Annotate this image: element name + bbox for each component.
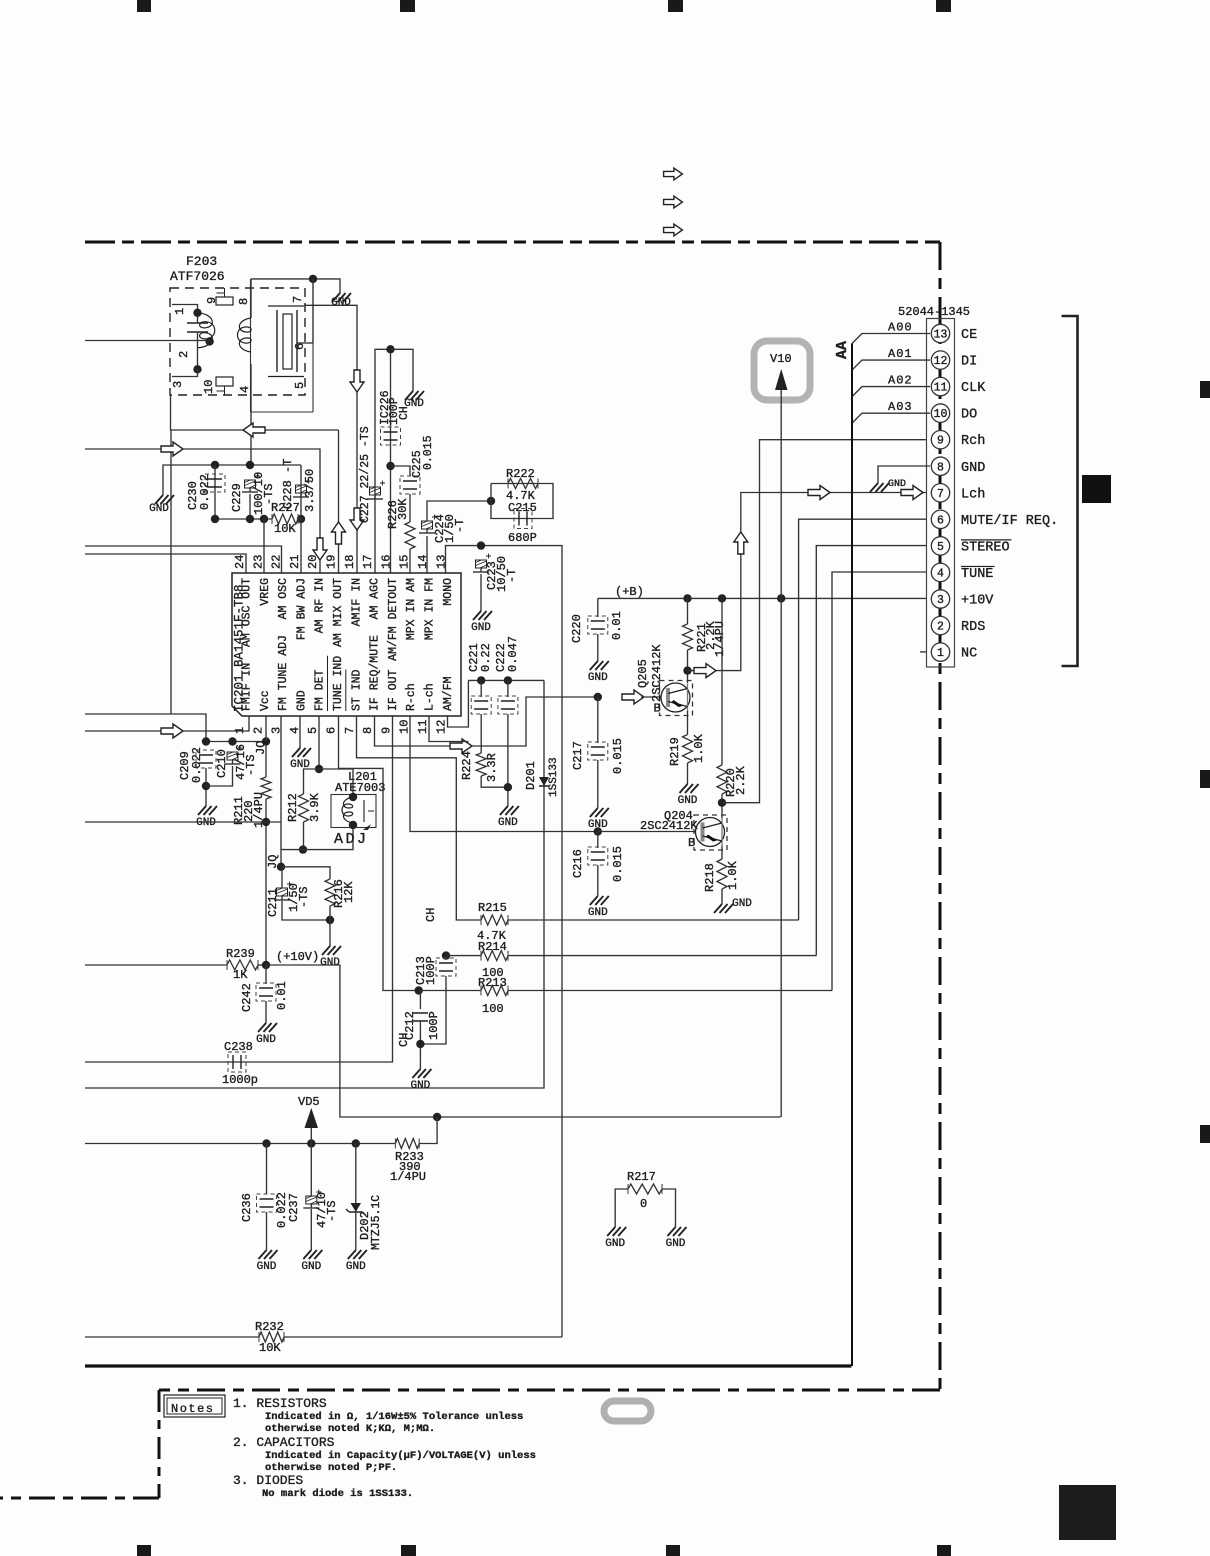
IC pin 21 number xyxy=(288,555,302,569)
IC pin 12 label AM/FM xyxy=(442,676,455,711)
label A00 xyxy=(888,321,913,335)
wire F203 pin7 out xyxy=(304,305,357,573)
label 1/50 xyxy=(287,883,301,912)
svg-text:MPX IN AM: MPX IN AM xyxy=(405,578,418,640)
connector pin 2 circle xyxy=(931,616,949,634)
wire AM ant out xyxy=(171,429,339,431)
resistor R239 xyxy=(227,960,258,970)
wire pin19 riser xyxy=(338,430,340,573)
wire R226 to pin15 xyxy=(409,549,411,573)
label 0.015 xyxy=(611,738,625,774)
wire C220 gnd lead xyxy=(597,634,599,655)
capacitor C212 xyxy=(413,1013,428,1021)
node W2 pin21 xyxy=(297,515,305,523)
resistor R216 xyxy=(325,879,335,906)
svg-text:GND: GND xyxy=(295,690,308,711)
registration mark top 3 xyxy=(668,0,683,12)
schematic border top xyxy=(85,241,940,244)
wire pin3 column xyxy=(280,716,282,867)
connector pin 9 circle xyxy=(931,431,949,449)
signal arrow mute arrow xyxy=(450,739,472,753)
svg-text:100: 100 xyxy=(482,1002,504,1016)
wire F203 pin6 tab xyxy=(297,342,313,344)
ground C220 xyxy=(588,655,609,684)
svg-text:10K: 10K xyxy=(259,1341,281,1355)
label 1 xyxy=(173,308,187,315)
IC pin 22 label AM OSC xyxy=(277,578,290,620)
wire C213 bottom xyxy=(420,976,446,1044)
svg-text:AM OSC OUT: AM OSC OUT xyxy=(241,578,254,647)
svg-text:GND: GND xyxy=(678,795,698,807)
svg-text:8: 8 xyxy=(361,727,375,734)
label R220 xyxy=(724,768,738,797)
wire C223 to gnd xyxy=(480,574,482,605)
label R211 xyxy=(232,796,246,825)
wire C230 column xyxy=(214,465,216,519)
svg-text:JQ: JQ xyxy=(266,855,280,869)
svg-text:2: 2 xyxy=(937,621,944,634)
label C225 xyxy=(411,450,424,478)
wire Q205 emitter lead xyxy=(687,711,689,735)
wire R232 out xyxy=(284,1336,562,1338)
wire C209 net xyxy=(206,741,266,743)
capacitor C237 xyxy=(303,1190,321,1209)
svg-text:Indicated in Capacity(µF)/VOLT: Indicated in Capacity(µF)/VOLTAGE(V) unl… xyxy=(265,1450,536,1462)
svg-text:DI: DI xyxy=(961,355,977,370)
svg-text:0.015: 0.015 xyxy=(611,846,625,882)
connector pin 13 circle xyxy=(931,324,949,342)
wire R232 line xyxy=(85,1336,259,1338)
wire pin4 gnd stub xyxy=(299,716,301,742)
label 2.2K xyxy=(734,765,748,795)
IC pin 10 label R-ch xyxy=(405,683,418,711)
svg-text:-TS: -TS xyxy=(325,1200,339,1222)
signal arrow Lch arrow up xyxy=(734,532,748,554)
label -T xyxy=(281,459,295,473)
node W1 C229 xyxy=(246,461,254,469)
label 0.022 xyxy=(198,474,212,510)
svg-text:A01: A01 xyxy=(888,347,913,361)
alignment square right xyxy=(1082,475,1111,503)
label C213 xyxy=(414,956,428,985)
label 3 xyxy=(171,381,185,388)
IC pin 20 label AM RF IN xyxy=(314,578,327,633)
connector pin label CLK xyxy=(961,381,986,396)
ground R217 left xyxy=(605,1221,626,1250)
label IC201 BA1451F-TB8 xyxy=(233,584,247,712)
notes box left border xyxy=(158,1390,161,1498)
svg-text:R218: R218 xyxy=(703,863,717,892)
ground IC226 top xyxy=(404,385,424,410)
wire R214 out xyxy=(508,955,816,957)
ground C236 xyxy=(257,1244,278,1273)
signal arrow pin18 feed upper xyxy=(350,370,364,392)
signal arrow Lch arrow 3 xyxy=(901,486,923,500)
wire C237 column xyxy=(310,1144,312,1197)
wire W1 bypass top xyxy=(163,465,301,489)
svg-text:B: B xyxy=(654,702,661,716)
IC pin 8 number xyxy=(361,727,375,734)
svg-text:15: 15 xyxy=(398,555,412,569)
wire C236 gnd lead xyxy=(266,1212,268,1244)
registration mark bottom 3 xyxy=(666,1545,680,1556)
IC pin 2 number xyxy=(251,727,265,734)
IC pin 3 label FM TUNE ADJ xyxy=(277,635,290,711)
node R213 C212 node xyxy=(415,986,423,994)
transistor Q205 xyxy=(654,681,693,716)
svg-text:R-ch: R-ch xyxy=(405,683,418,711)
svg-text:(+10V): (+10V) xyxy=(276,950,319,964)
svg-text:1SS133: 1SS133 xyxy=(548,757,560,797)
connector pin 6 circle xyxy=(931,510,949,528)
signal arrow pin20 arrow xyxy=(313,538,327,560)
svg-text:GND: GND xyxy=(256,1034,276,1046)
svg-text:100P: 100P xyxy=(424,956,438,985)
node C209 top xyxy=(202,737,210,745)
svg-text:1.0K: 1.0K xyxy=(692,733,706,763)
node C222 top xyxy=(504,676,512,684)
IC pin 22 number xyxy=(270,555,284,569)
wire conn gnd hook xyxy=(878,466,930,477)
svg-text:100P: 100P xyxy=(427,1011,441,1040)
svg-text:Indicated in Ω, 1/16W±5% Tole: Indicated in Ω, 1/16W±5% Tolerance unles… xyxy=(265,1411,523,1423)
IC pin 1 number xyxy=(233,727,247,734)
svg-text:1: 1 xyxy=(937,647,944,660)
wire mute bus xyxy=(799,519,927,920)
label A01 xyxy=(888,347,913,361)
signal arrow AM out arrow xyxy=(243,423,265,437)
wire C242 gnd lead xyxy=(265,1001,267,1017)
capacitor C220 xyxy=(588,616,608,634)
wire bus AA horizontal xyxy=(85,1364,851,1367)
svg-text:MPX IN FM: MPX IN FM xyxy=(424,578,437,640)
svg-text:R239: R239 xyxy=(226,947,255,961)
connector pin label DO xyxy=(961,408,977,423)
ground C230 left xyxy=(149,489,174,515)
node W2 pin23 xyxy=(260,515,268,523)
label -TS xyxy=(297,886,311,908)
capacitor C215 xyxy=(514,509,532,529)
svg-text:18: 18 xyxy=(343,555,357,569)
svg-text:GND: GND xyxy=(320,957,340,969)
svg-text:4: 4 xyxy=(238,386,252,393)
wire pin10 rch xyxy=(410,716,598,832)
wire C212 column xyxy=(419,991,421,1010)
label C228 xyxy=(281,480,295,509)
wire C212 bottom xyxy=(419,1021,421,1063)
svg-text:2: 2 xyxy=(177,351,191,358)
label 1.0K xyxy=(692,733,706,763)
svg-text:9: 9 xyxy=(205,297,219,304)
IC pin 24 number xyxy=(233,555,247,569)
label 3.3R xyxy=(485,753,499,782)
label C215 xyxy=(508,501,537,515)
svg-text:3. DIODES: 3. DIODES xyxy=(233,1473,303,1488)
connector 52044-1345 outline xyxy=(927,319,955,668)
wire C242 column xyxy=(265,965,267,984)
IC pin 2 label Vcc xyxy=(259,690,272,711)
ground C217 xyxy=(588,802,609,831)
svg-text:TUNE IND: TUNE IND xyxy=(332,656,345,711)
svg-text:1. RESISTORS: 1. RESISTORS xyxy=(233,1396,327,1411)
IC pin 23 number xyxy=(251,555,265,569)
label GND xyxy=(888,479,906,490)
ground R217 right xyxy=(666,1221,687,1250)
wire Vcc feed xyxy=(85,714,206,742)
svg-text:11: 11 xyxy=(934,382,948,395)
label R224 xyxy=(460,751,474,780)
wire F203 top net xyxy=(251,279,340,287)
registration mark right 2 xyxy=(1200,770,1210,788)
svg-text:7: 7 xyxy=(937,488,944,501)
note 2 body xyxy=(265,1450,536,1474)
IC pin 9 number xyxy=(379,727,393,734)
registration mark right 3 xyxy=(1200,1125,1210,1143)
label MTZJ5.1C xyxy=(370,1195,383,1250)
label 47/10 xyxy=(315,1192,329,1228)
svg-text:ATE7003: ATE7003 xyxy=(335,781,385,795)
wire R233 out xyxy=(419,1117,437,1144)
wire Q205 base wire xyxy=(641,696,661,698)
wire A01 line xyxy=(852,360,930,370)
svg-text:C237: C237 xyxy=(287,1193,301,1222)
wire A00 line xyxy=(852,334,930,344)
svg-text:CH: CH xyxy=(397,1033,411,1047)
svg-text:GND: GND xyxy=(257,1261,277,1273)
resistor R214 xyxy=(481,951,508,961)
label 100P xyxy=(427,1011,441,1040)
label C210 xyxy=(215,749,229,778)
label R217 xyxy=(627,1170,656,1211)
node R216 bottom xyxy=(326,916,334,924)
svg-text:+10V: +10V xyxy=(961,594,994,609)
label 0.015 xyxy=(611,846,625,882)
svg-text:FM BW ADJ: FM BW ADJ xyxy=(295,578,308,640)
svg-text:0.22: 0.22 xyxy=(479,643,493,672)
svg-text:0.022: 0.022 xyxy=(198,474,212,510)
F203 dashed outline xyxy=(170,288,305,395)
connector pin label GND xyxy=(961,461,985,476)
label CH xyxy=(398,406,411,420)
wire A03 line xyxy=(852,413,930,423)
label R233 xyxy=(390,1150,426,1184)
svg-text:GND: GND xyxy=(588,672,608,684)
IC pin 14 label MPX IN FM xyxy=(424,578,437,640)
svg-text:GND: GND xyxy=(732,898,752,910)
signal arrow Lch arrow 1 xyxy=(694,664,716,678)
IC pin 13 number xyxy=(434,555,448,569)
IC pin 12 number xyxy=(434,720,448,734)
svg-text:GND: GND xyxy=(605,1238,625,1250)
svg-text:AMIF IN: AMIF IN xyxy=(350,578,363,626)
svg-text:2: 2 xyxy=(251,727,265,734)
svg-text:GND: GND xyxy=(961,461,985,476)
signal arrow FMIF arrow xyxy=(161,724,183,738)
resistor R227 xyxy=(272,514,298,524)
IC pin 7 number xyxy=(343,727,357,734)
label C229 xyxy=(230,483,244,512)
wire pin11 lch xyxy=(429,716,468,742)
wire R222 loop xyxy=(491,484,553,519)
resistor R217 xyxy=(628,1184,662,1194)
wire F203 pin6 riser xyxy=(312,279,314,343)
wire FM input xyxy=(85,340,210,342)
connector pin label NC xyxy=(961,647,977,662)
capacitor C224 xyxy=(419,515,437,534)
svg-text:R215: R215 xyxy=(478,901,507,915)
ground C237 xyxy=(301,1244,322,1273)
wire IF OUT line xyxy=(85,716,393,1062)
wire bus AA vertical xyxy=(851,344,853,1367)
wire C222 column xyxy=(507,680,509,697)
svg-text:C210: C210 xyxy=(215,749,229,778)
svg-text:16: 16 xyxy=(379,555,393,569)
ground R216 xyxy=(320,940,341,969)
svg-text:CH: CH xyxy=(398,406,411,420)
svg-text:12K: 12K xyxy=(342,881,356,903)
svg-text:Lch: Lch xyxy=(961,487,985,502)
label 1.0K xyxy=(726,860,740,890)
label R218 xyxy=(703,863,717,892)
svg-text:2SC2412K: 2SC2412K xyxy=(650,644,664,702)
registration mark top 2 xyxy=(400,0,415,12)
connector pin 3 circle xyxy=(931,590,949,608)
wire C211 bottom xyxy=(282,901,330,920)
IC pin 17 number xyxy=(361,555,375,569)
wire F203 pin1 stub xyxy=(172,305,198,324)
wire pin6 tune ind xyxy=(339,716,419,991)
connector pin 8 circle xyxy=(931,457,949,475)
connector pin 7 circle xyxy=(931,484,949,502)
label 5 xyxy=(293,382,307,389)
svg-text:C238: C238 xyxy=(224,1040,253,1054)
node L201 bottom net xyxy=(299,845,307,853)
svg-text:C228: C228 xyxy=(281,480,295,509)
wire pin1 stub xyxy=(920,651,927,653)
resistor R222 xyxy=(508,479,538,489)
svg-text:-TS: -TS xyxy=(244,754,258,776)
svg-text:3: 3 xyxy=(171,381,185,388)
svg-text:10K: 10K xyxy=(274,522,296,536)
svg-text:52044-1345: 52044-1345 xyxy=(898,305,970,319)
svg-text:3.3/50: 3.3/50 xyxy=(303,469,317,512)
registration mark top 1 xyxy=(137,0,151,12)
label 680P xyxy=(508,531,537,545)
wire pin12 amfm xyxy=(448,680,469,727)
wire R218 gnd lead xyxy=(721,889,723,898)
svg-text:C242: C242 xyxy=(240,983,254,1012)
label 12K xyxy=(342,881,356,903)
label C217 xyxy=(571,741,585,770)
resistor R224 xyxy=(476,753,486,776)
wire Rch takeoff xyxy=(722,440,927,803)
IC pin 7 label ST IND xyxy=(346,669,364,711)
svg-text:11: 11 xyxy=(416,720,430,734)
resistor R220 xyxy=(717,765,727,794)
alignment square bottom right xyxy=(1059,1485,1116,1540)
wire R213 line xyxy=(419,990,481,992)
capacitor C211 xyxy=(274,882,292,901)
svg-text:TUNE: TUNE xyxy=(961,567,993,582)
svg-text:C220: C220 xyxy=(570,614,584,643)
node +B R221 xyxy=(683,594,691,602)
label 100/10 xyxy=(252,472,266,515)
wire pin17 agc riser xyxy=(375,349,391,573)
F203 ceramic filter xyxy=(268,306,304,377)
label R219 xyxy=(668,737,682,766)
svg-text:STEREO: STEREO xyxy=(961,540,1010,555)
label 220 xyxy=(242,800,256,822)
node W1 C230 xyxy=(211,461,219,469)
wire C221 column xyxy=(480,680,482,697)
wire +B rail xyxy=(598,597,927,599)
label 100P xyxy=(424,956,438,985)
wire D202 gnd lead xyxy=(355,1212,357,1244)
IC pin 15 number xyxy=(398,555,412,569)
connector pin 4 circle xyxy=(931,563,949,581)
svg-text:3: 3 xyxy=(937,594,944,607)
label R226 xyxy=(386,500,400,529)
label 2.2K xyxy=(704,620,718,650)
svg-text:4: 4 xyxy=(937,567,944,580)
wire W2 bottom xyxy=(215,518,272,520)
node R211 bottom xyxy=(262,818,270,826)
connector pin label Rch xyxy=(961,434,985,449)
IC pin 19 number xyxy=(325,555,339,569)
svg-text:-TS: -TS xyxy=(297,886,311,908)
label 8 xyxy=(237,298,251,305)
wire C225 jog xyxy=(391,466,411,476)
svg-text:AM RF IN: AM RF IN xyxy=(314,578,327,633)
wire F203 pin3 stub xyxy=(172,369,198,376)
wire Lch takeoff xyxy=(688,493,927,671)
registration mark top 4 xyxy=(936,0,951,12)
svg-text:R217: R217 xyxy=(627,1170,656,1184)
svg-text:C229: C229 xyxy=(230,483,244,512)
label IC226 xyxy=(379,390,392,425)
connector pin label STEREO xyxy=(961,540,1011,556)
label 0.01 xyxy=(275,981,289,1010)
svg-text:-T: -T xyxy=(505,569,519,583)
wire R213 out xyxy=(508,990,832,992)
svg-text:No mark diode is 1SS133.: No mark diode is 1SS133. xyxy=(262,1488,413,1500)
IC pin 1 label FMIF IN xyxy=(241,663,254,711)
IC U201 outline xyxy=(232,573,461,716)
registration mark right 1 xyxy=(1200,381,1210,398)
notes box bottom border xyxy=(0,1497,159,1500)
IC pin 11 number xyxy=(416,720,430,734)
label 1SS133 xyxy=(548,757,560,797)
node Q204 collector node xyxy=(718,799,726,807)
capacitor C223 xyxy=(473,554,491,573)
label 3.3/50 xyxy=(303,469,317,512)
label C209 xyxy=(178,751,192,780)
signal arrow Lch arrow 2 xyxy=(808,486,830,500)
label L201 xyxy=(335,770,385,795)
svg-text:MUTE/IF REQ.: MUTE/IF REQ. xyxy=(961,514,1058,529)
label 9 xyxy=(205,297,219,304)
wire R224 out xyxy=(481,776,508,787)
svg-text:0.01: 0.01 xyxy=(610,611,624,640)
signal arrow page link 3 xyxy=(664,224,683,236)
wire C216 column xyxy=(597,832,599,849)
resistor R226 xyxy=(405,522,415,549)
capacitor C238 xyxy=(228,1052,246,1072)
svg-text:AM AGC: AM AGC xyxy=(369,578,382,620)
registration mark bottom 4 xyxy=(937,1545,951,1556)
svg-text:0.047: 0.047 xyxy=(506,636,520,672)
label C220 xyxy=(570,614,584,643)
